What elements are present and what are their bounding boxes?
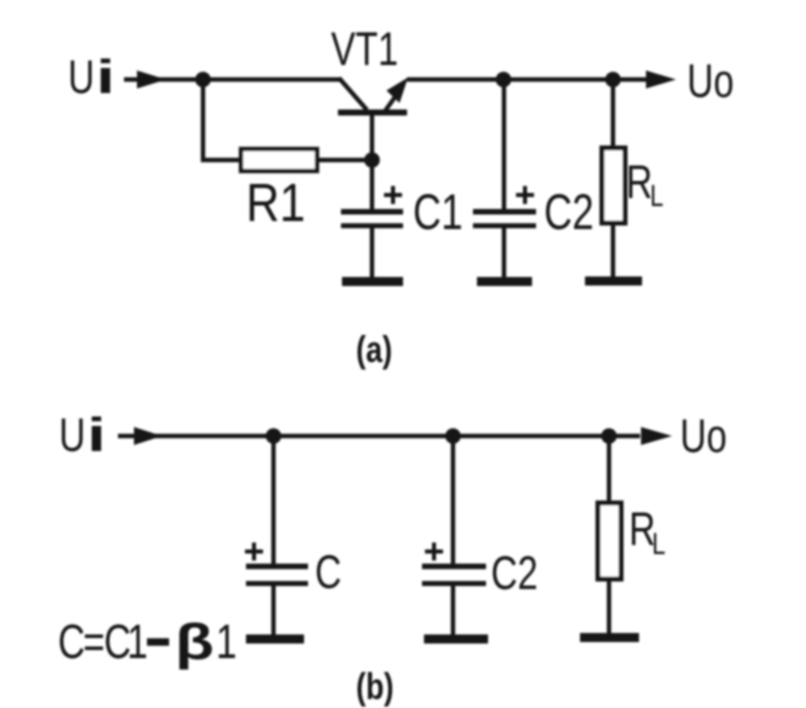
- C2 top plate (b): [422, 564, 486, 570]
- capacitor C2 (b): [422, 436, 486, 637]
- svg-text:R1: R1: [246, 172, 305, 233]
- C2 bottom plate (a): [473, 223, 536, 228]
- wire RL to ground (b): [607, 579, 611, 634]
- capacitor C1: [341, 160, 403, 279]
- svg-text:Uo: Uo: [687, 55, 734, 107]
- node A input junction (a): [195, 72, 211, 88]
- svg-text:i: i: [87, 409, 106, 461]
- svg-text:VT1: VT1: [331, 23, 398, 75]
- resistor R1: [241, 149, 317, 171]
- arrowhead input (a): [137, 71, 166, 89]
- label Ui (b): [59, 409, 106, 462]
- svg-text:Uo: Uo: [680, 410, 727, 462]
- wire node E to C top plate: [271, 436, 275, 564]
- ground of C2 (b): [424, 635, 488, 644]
- wire node D to RL (a): [611, 80, 615, 150]
- capacitor C2 (a): [473, 80, 536, 280]
- wire output rail (a): [407, 77, 648, 81]
- node C junction at C2 (a): [496, 72, 512, 88]
- wire RL to ground (a): [611, 223, 615, 278]
- ground of RL (b): [580, 633, 639, 642]
- ground of C2 (a): [477, 277, 532, 286]
- label RL (a): [626, 156, 663, 213]
- label C=C1-B1 formula: [58, 615, 237, 671]
- arrowhead input (b): [134, 427, 162, 445]
- C top plate: [246, 564, 308, 570]
- wire C2 bottom plate to ground (b): [451, 585, 455, 637]
- C bottom plate: [246, 581, 308, 586]
- svg-text:1: 1: [127, 616, 148, 670]
- svg-text:C: C: [315, 546, 341, 598]
- svg-text:L: L: [650, 178, 663, 213]
- C polarity plus sign (b): [245, 543, 263, 561]
- resistor RL (a): [602, 80, 625, 279]
- wire C bottom plate to ground: [271, 585, 275, 637]
- collector lead of VT1: [339, 78, 367, 110]
- C1 bottom plate: [341, 223, 403, 228]
- resistor RL (b): [598, 436, 621, 634]
- wire C1 bottom plate to ground: [370, 227, 374, 279]
- RL body (b): [598, 503, 621, 579]
- node G junction at RL (b): [601, 428, 617, 444]
- svg-text:C2: C2: [544, 183, 594, 240]
- RL body (a): [602, 148, 625, 223]
- svg-text:U: U: [59, 409, 85, 461]
- svg-text:β: β: [175, 615, 214, 671]
- wire input rail (b): [118, 434, 640, 438]
- minus sign in formula: [147, 638, 169, 646]
- C2 top plate (a): [473, 209, 536, 215]
- label Ui (a): [68, 51, 115, 104]
- wire node B to C1 top plate: [370, 160, 374, 210]
- svg-text:i: i: [96, 51, 115, 103]
- wire R1 to node B: [317, 158, 372, 162]
- node E junction at C (b): [266, 428, 282, 444]
- svg-text:U: U: [68, 51, 94, 103]
- arrowhead output (b): [641, 427, 672, 445]
- base bar of VT1: [338, 110, 407, 116]
- wire node G to RL (b): [607, 436, 611, 504]
- label RL (b): [629, 503, 665, 561]
- wire C2 bottom plate to ground (a): [502, 227, 506, 279]
- arrowhead output (a): [646, 71, 676, 89]
- wire node F to C2 top plate (b): [451, 436, 455, 564]
- C2 polarity plus sign (a): [516, 186, 534, 204]
- svg-text:C: C: [58, 616, 85, 670]
- svg-text:1: 1: [216, 616, 237, 670]
- ground of RL (a): [585, 277, 642, 286]
- svg-text:C1: C1: [413, 183, 463, 240]
- C1 top plate: [341, 209, 403, 215]
- capacitor C (b): [246, 436, 308, 637]
- svg-text:C2: C2: [491, 547, 538, 599]
- wire input rail (a): [124, 77, 340, 81]
- svg-text:(b): (b): [356, 667, 394, 708]
- svg-text:R: R: [626, 156, 652, 208]
- node B base junction (a): [364, 152, 380, 168]
- C2 bottom plate (b): [422, 581, 486, 586]
- svg-text:(a): (a): [356, 330, 392, 371]
- wire from node A down to R1: [203, 80, 243, 161]
- C2 polarity plus sign (b): [425, 543, 443, 561]
- ground of C (b): [246, 635, 304, 644]
- node F junction at C2 (b): [445, 428, 461, 444]
- C1 polarity plus sign: [384, 186, 402, 204]
- transistor VT1: [338, 78, 408, 161]
- emitter lead of VT1: [385, 97, 395, 111]
- base lead of VT1: [370, 113, 374, 161]
- ground of C1: [342, 277, 403, 286]
- svg-text:L: L: [652, 526, 665, 561]
- emitter arrowhead of VT1: [387, 78, 409, 104]
- node D junction at RL (a): [605, 72, 621, 88]
- svg-text:=: =: [83, 616, 105, 670]
- wire node C to C2 top plate: [502, 80, 506, 211]
